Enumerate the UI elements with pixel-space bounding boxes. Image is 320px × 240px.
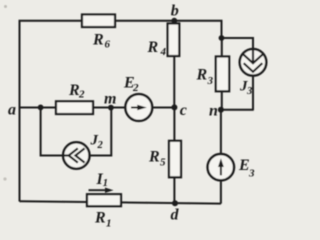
svg-text:2: 2 [97, 140, 104, 151]
svg-text:6: 6 [105, 39, 111, 51]
svg-text:2: 2 [132, 82, 139, 94]
svg-text:c: c [180, 102, 187, 119]
svg-text:5: 5 [160, 157, 166, 169]
svg-text:R: R [148, 149, 160, 166]
svg-text:a: a [8, 102, 16, 119]
svg-text:3: 3 [207, 75, 214, 87]
svg-text:4: 4 [160, 46, 167, 58]
svg-text:d: d [171, 207, 180, 224]
svg-text:R: R [147, 39, 159, 56]
svg-text:E: E [238, 157, 250, 174]
svg-text:1: 1 [103, 178, 108, 189]
svg-text:R: R [92, 32, 104, 49]
svg-text:R: R [196, 67, 208, 84]
svg-text:3: 3 [248, 168, 255, 180]
svg-text:3: 3 [246, 86, 252, 97]
svg-text:2: 2 [78, 89, 85, 101]
svg-text:n: n [209, 103, 218, 120]
svg-text:1: 1 [106, 218, 112, 230]
svg-text:m: m [104, 91, 116, 108]
svg-text:R: R [94, 210, 106, 227]
svg-text:b: b [171, 3, 179, 20]
